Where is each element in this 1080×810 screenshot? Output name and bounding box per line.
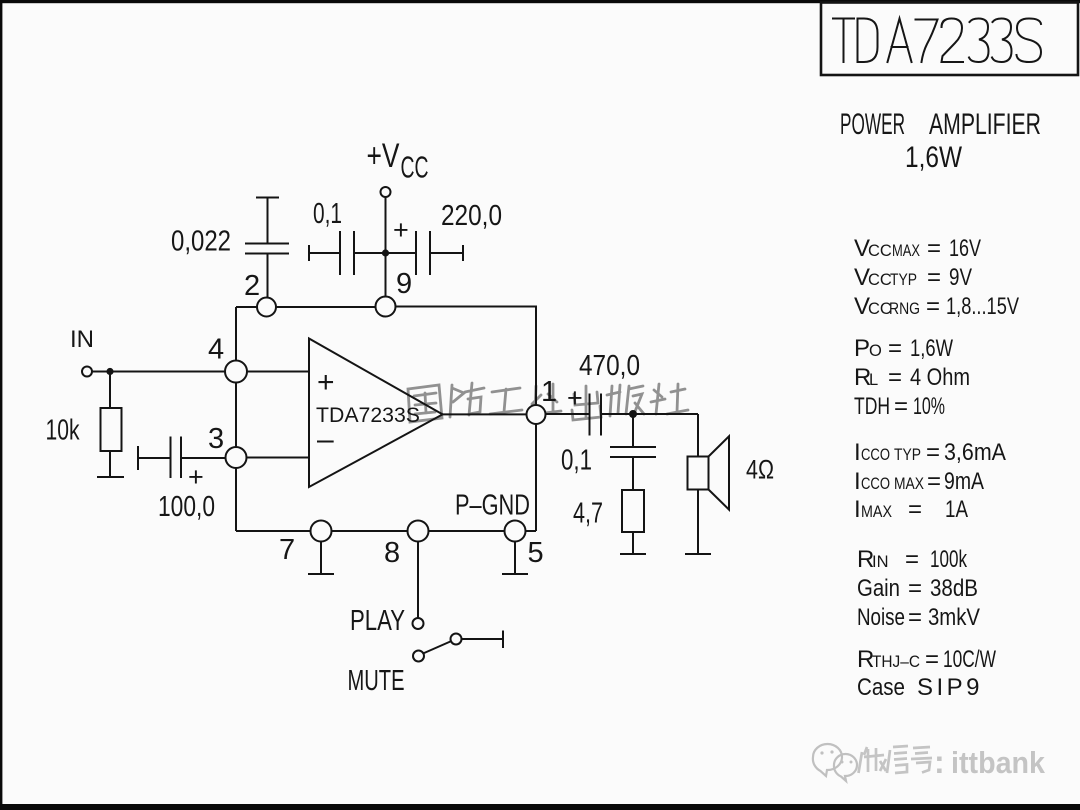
ground under speaker [685, 553, 711, 555]
pin 9 circle [376, 297, 396, 317]
wire pin8 to switch [417, 542, 419, 619]
capacitor C 100,0 left tick [137, 446, 139, 470]
watermark char she [651, 384, 688, 414]
wire pin4 to op-amp [247, 371, 309, 373]
ground under pin7 [320, 542, 322, 575]
svg-text:2: 2 [244, 270, 260, 302]
svg-text:0,022: 0,022 [171, 226, 231, 258]
wire pin3 to op-amp [247, 457, 310, 459]
frame top bar [0, 0, 1080, 3]
svg-text:10k: 10k [46, 415, 80, 447]
wire 0,1 to 4,7 [632, 457, 634, 490]
svg-text:CC: CC [401, 150, 429, 185]
wire op-amp output to pin1 [443, 413, 527, 415]
svg-text:POWER: POWER [840, 108, 905, 141]
capacitor C 0,1 (top) [339, 231, 341, 275]
node IN terminal [82, 367, 92, 377]
wechat id text 微信号 (drawn) [859, 746, 933, 773]
svg-text:Noise=3mkV: Noise=3mkV [857, 604, 980, 631]
svg-text:100,0: 100,0 [158, 491, 215, 523]
junction on Vcc line [382, 249, 389, 256]
svg-text:0,1: 0,1 [561, 445, 592, 477]
speaker bottom lead [697, 490, 699, 555]
wire pin1 down to bottom bus [535, 424, 537, 531]
op-amp U1 triangle [309, 339, 443, 488]
svg-text:7: 7 [279, 534, 295, 566]
svg-text:4,7: 4,7 [573, 498, 603, 530]
svg-text:3: 3 [208, 423, 224, 455]
speaker body [688, 457, 709, 490]
watermark char ban [607, 385, 644, 416]
watermark char fang [450, 383, 484, 417]
wire pin1 to 470,0 [546, 413, 590, 415]
capacitor C 0,022 top tick [256, 197, 279, 199]
svg-text:ittbank: ittbank [951, 745, 1046, 780]
switch play contact [413, 618, 424, 629]
resistor R 10k bottom lead [109, 451, 111, 477]
pin 2 circle [257, 298, 276, 317]
svg-text:P–GND: P–GND [455, 490, 530, 522]
wire bottom bus [236, 530, 311, 532]
capacitor C 0,022 plates [245, 243, 289, 245]
svg-text:+: + [317, 366, 335, 399]
svg-text:220,0: 220,0 [441, 200, 502, 232]
ground under 10k [97, 476, 124, 478]
wire cap-chain left lead with tick [308, 245, 310, 261]
svg-text:TDH=10%: TDH=10% [854, 393, 945, 420]
svg-text:AMPLIFIER: AMPLIFIER [929, 108, 1041, 141]
svg-text:+V: +V [367, 137, 400, 175]
ground under pin5 [514, 542, 516, 575]
pin 3 circle [226, 447, 247, 468]
junction IN node [106, 368, 113, 375]
capacitor C 100,0 plates [170, 437, 172, 479]
switch mute contact [413, 651, 424, 662]
speaker cone [709, 436, 730, 509]
frame left bar [0, 0, 2, 806]
junction output node [629, 410, 637, 418]
wire switch common [462, 638, 504, 640]
capacitor C 220,0 [415, 231, 417, 275]
resistor R 10k body [101, 408, 122, 451]
wire 100,0 to pin3 [181, 457, 226, 459]
svg-text:RIN=100k: RIN=100k [857, 546, 968, 573]
wire top bus [236, 306, 257, 308]
pin 1 circle [527, 405, 546, 424]
wechat logo [813, 744, 857, 781]
svg-text:470,0: 470,0 [579, 350, 640, 382]
svg-text:5: 5 [528, 537, 544, 569]
wire to Vcc node [354, 252, 416, 254]
watermark 国防工业出版社 (hand-drawn strokes) [408, 383, 688, 422]
char hao [911, 747, 932, 773]
resistor R 10k lead [109, 372, 111, 409]
ground under 4,7 [620, 553, 646, 555]
node +Vcc terminal [381, 187, 391, 197]
watermark char guo [408, 385, 442, 422]
capacitor C 0,1 (output) plates [610, 446, 656, 448]
svg-text:PLAY: PLAY [350, 605, 405, 637]
pin 4 circle [225, 361, 247, 383]
svg-text:1: 1 [541, 376, 557, 408]
svg-text:IN: IN [70, 326, 94, 353]
wire junction down to 0,1 [632, 414, 634, 447]
svg-text:MUTE: MUTE [348, 665, 405, 697]
svg-text:0,1: 0,1 [313, 198, 342, 230]
title TDA7233S [833, 19, 1041, 63]
switch common end tick [502, 631, 504, 649]
resistor R 4,7 body [622, 490, 644, 532]
svg-text:+: + [188, 462, 204, 492]
wire left rail [235, 307, 237, 361]
svg-text:+: + [567, 383, 583, 413]
switch pole contact [451, 634, 462, 645]
svg-text:4: 4 [208, 334, 224, 366]
wire 470,0 to speaker [601, 413, 698, 415]
resistor R 4,7 bottom lead [632, 532, 634, 554]
svg-text:8: 8 [384, 537, 400, 569]
wire Vcc vertical [385, 197, 387, 297]
svg-text::: : [934, 744, 945, 780]
frame bottom bar [0, 804, 1080, 810]
pin 7 circle [311, 521, 332, 542]
svg-text:9: 9 [396, 268, 412, 300]
watermark char chu [572, 386, 601, 420]
char wei [859, 747, 887, 773]
svg-text:Gain=38dB: Gain=38dB [857, 575, 978, 602]
pin 8 circle [408, 521, 429, 542]
watermark char gong [490, 388, 522, 414]
svg-text:CaseSIP9: CaseSIP9 [857, 674, 983, 701]
title box [821, 3, 1078, 76]
char xin [887, 746, 908, 773]
wire IN to pin4 [92, 371, 225, 373]
svg-text:1,6W: 1,6W [905, 141, 962, 174]
wire down to speaker [697, 414, 699, 457]
wire cap-chain right lead with tick [430, 252, 463, 254]
capacitor C 470,0 plates [589, 394, 591, 436]
wire 0,022 to pin2 [267, 254, 269, 299]
svg-text:–: – [317, 423, 334, 456]
svg-text:4Ω: 4Ω [746, 455, 774, 485]
svg-text:+: + [393, 215, 409, 245]
switch arm [423, 641, 452, 654]
watermark char ye [528, 384, 561, 415]
pin 5 circle [505, 521, 526, 542]
